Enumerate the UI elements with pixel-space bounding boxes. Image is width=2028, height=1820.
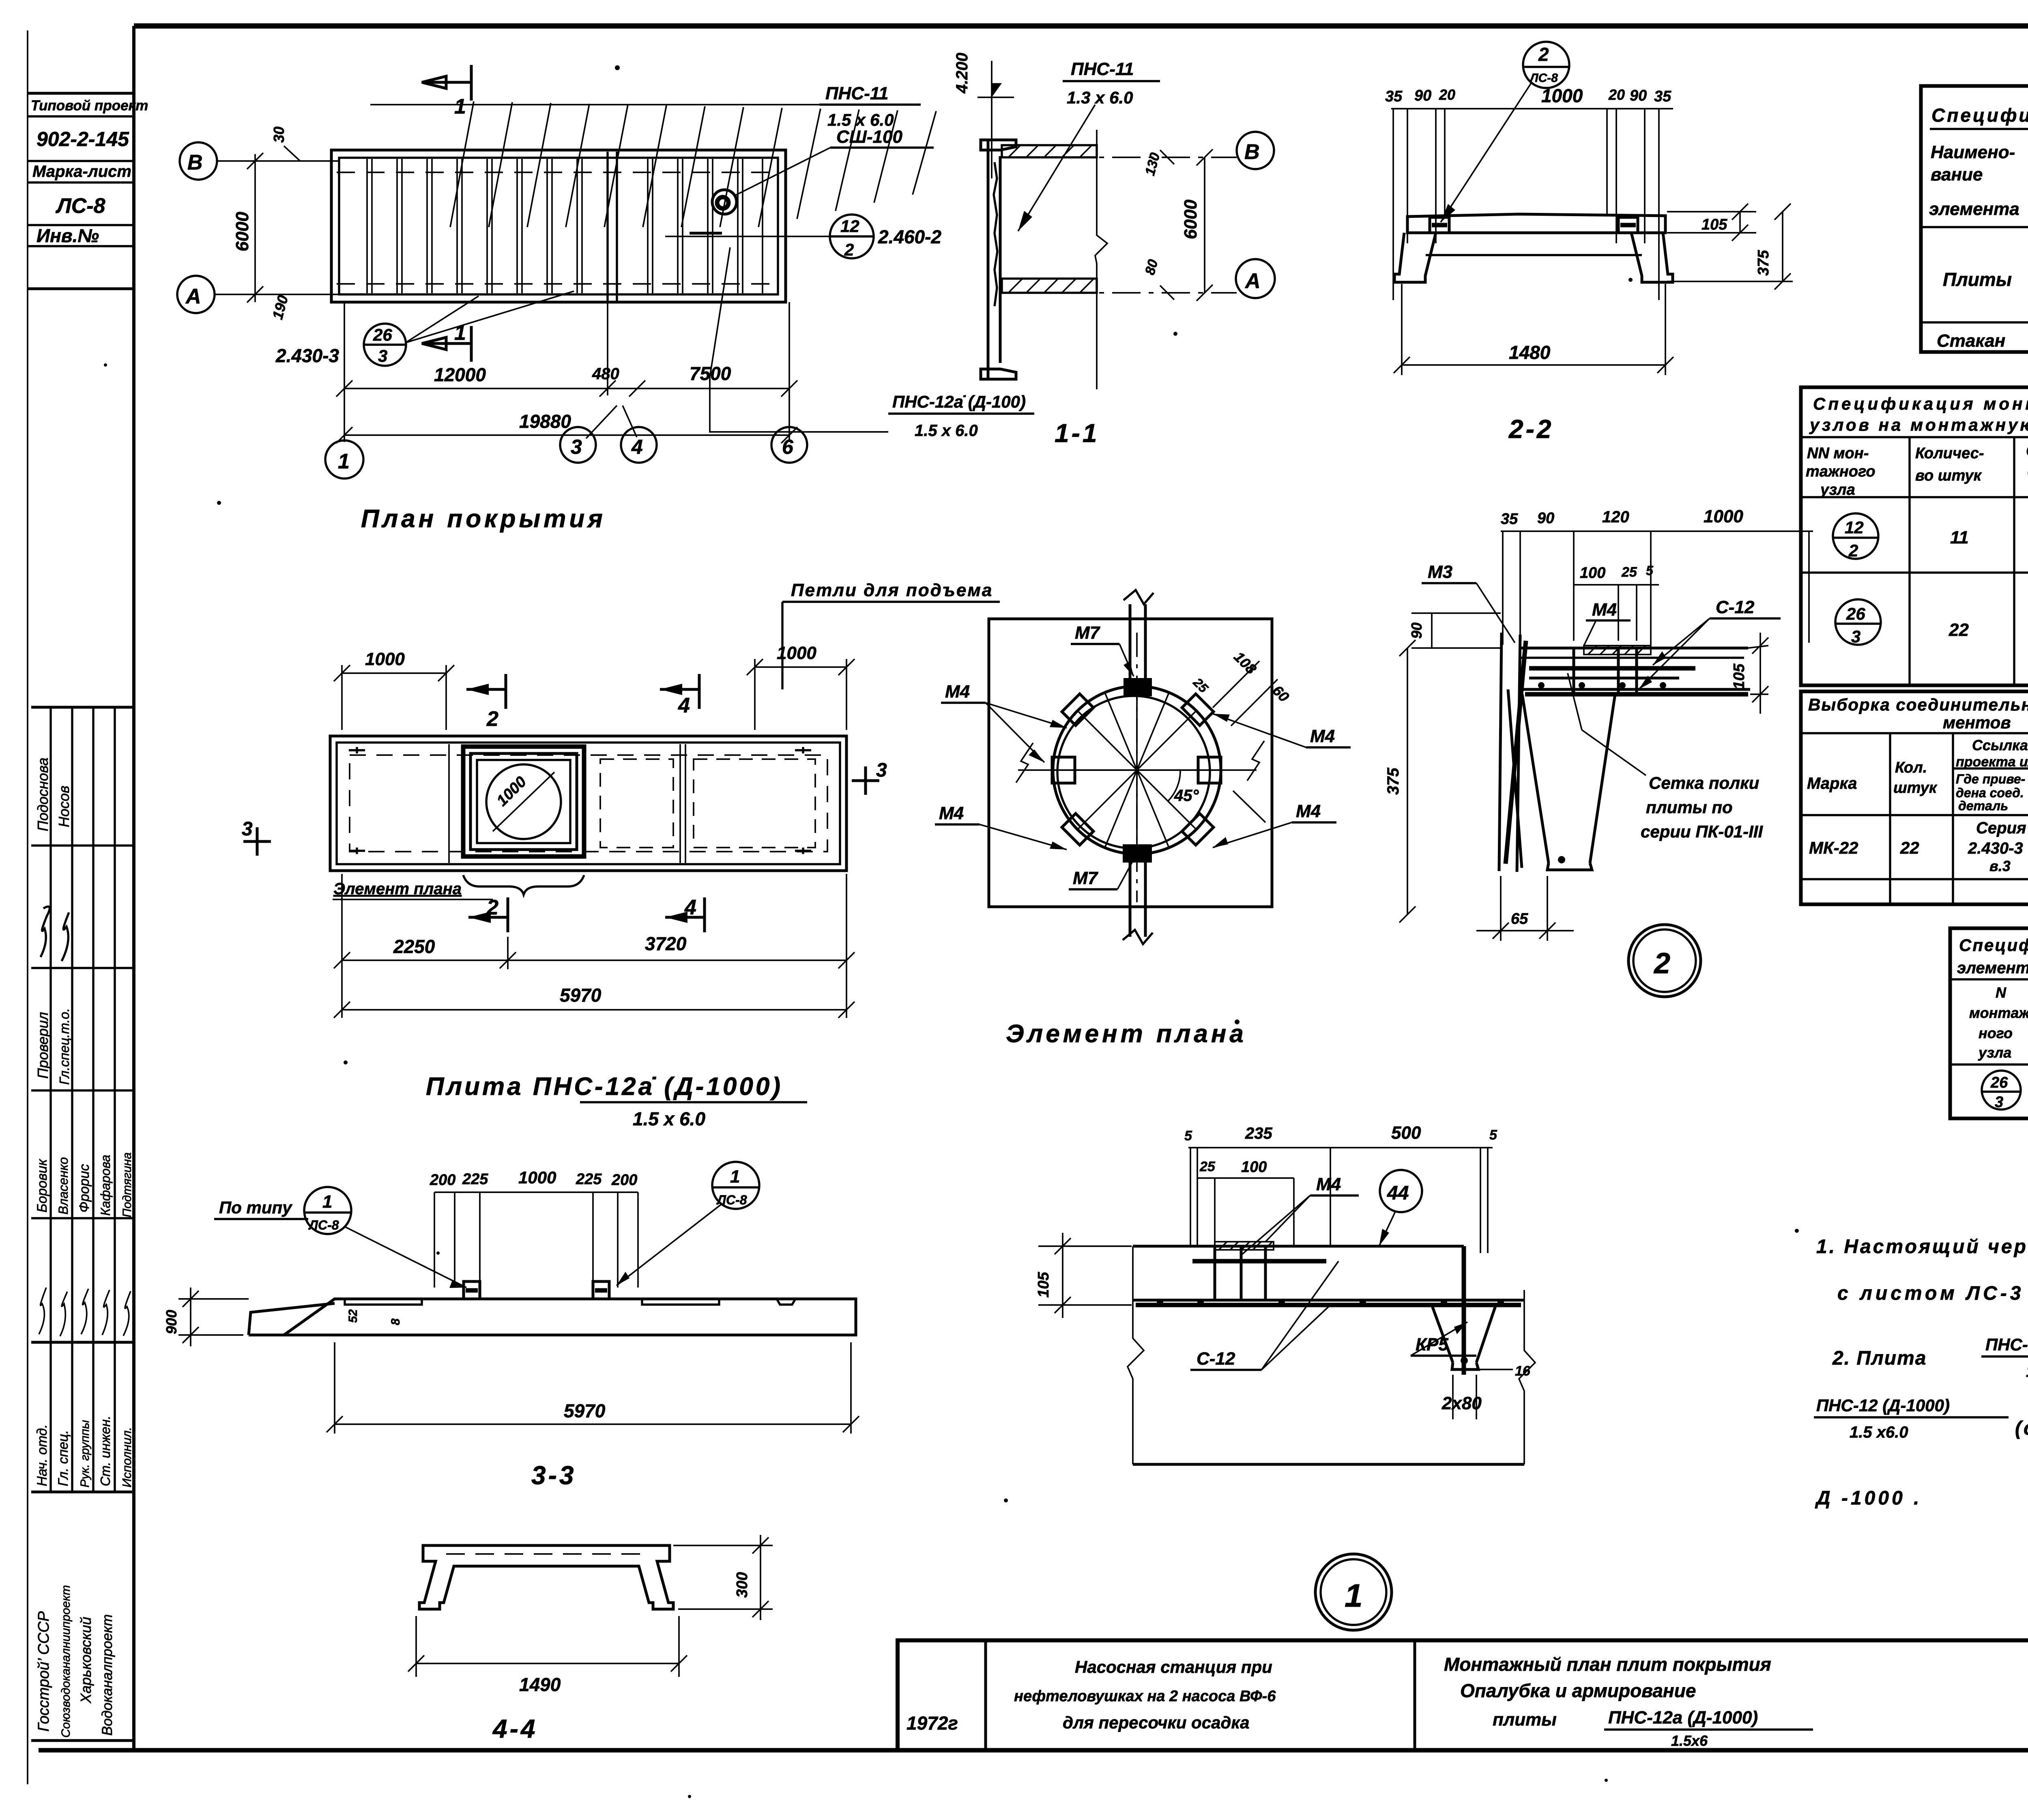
svg-text:4: 4: [684, 896, 696, 919]
svg-text:1000: 1000: [518, 1168, 556, 1187]
grid circle А: [177, 276, 215, 313]
M4 plate NW: [1062, 694, 1093, 725]
plan rib lines left block: [367, 159, 582, 293]
стакан СШ-100 symbol: [712, 190, 737, 214]
dim 105 right: [1667, 211, 1756, 212]
КРЗ vertical rod: [1462, 1246, 1466, 1375]
svg-text:6000: 6000: [1181, 200, 1201, 239]
node circle 12/2: [830, 215, 874, 258]
grid circle 6: [771, 427, 807, 463]
dim 375 right: [1667, 281, 1793, 282]
svg-text:В: В: [187, 151, 203, 174]
svg-text:2.460-2: 2.460-2: [878, 226, 941, 247]
svg-text:26: 26: [1846, 604, 1865, 623]
svg-text:По типу: По типу: [219, 1198, 293, 1217]
svg-text:штук: штук: [1893, 779, 1938, 796]
left break line: [1128, 1246, 1144, 1464]
svg-text:6: 6: [782, 436, 794, 458]
svg-text:Сетка полки: Сетка полки: [1649, 773, 1759, 792]
section 2-2 plate slab: [1407, 214, 1665, 233]
svg-text:ЛС-8: ЛС-8: [55, 194, 105, 218]
svg-text:с листом ЛС-3 .: с листом ЛС-3 .: [1837, 1283, 2028, 1304]
grid circle 3: [560, 427, 596, 463]
wall rebar diagonals: [1506, 641, 1526, 864]
svg-text:4: 4: [631, 436, 643, 458]
M4 plate NE: [1182, 694, 1214, 725]
svg-text:дена соед.: дена соед.: [1956, 786, 2024, 800]
dashed sub rect right1: [600, 759, 673, 848]
rebar top uzel1: [1192, 1259, 1326, 1264]
dim 1000 top-right: [754, 659, 756, 730]
svg-text:ПНС-11: ПНС-11: [825, 84, 889, 103]
svg-text:С-12: С-12: [1716, 597, 1755, 617]
svg-text:22: 22: [1949, 620, 1969, 640]
section 1-1 left wall: [987, 140, 990, 379]
svg-text:3-3: 3-3: [531, 1461, 576, 1490]
svg-text:Монтажный план плит покрытия: Монтажный план плит покрытия: [1444, 1654, 1771, 1675]
svg-text:3720: 3720: [645, 933, 687, 954]
leader line from 12/2 to plan: [665, 236, 830, 237]
svg-text:М4: М4: [945, 682, 970, 702]
svg-text:серии ПК-01-III: серии ПК-01-III: [1641, 822, 1763, 841]
svg-text:16: 16: [1515, 1363, 1531, 1379]
svg-text:100: 100: [1241, 1159, 1267, 1176]
stirrup verticals: [1573, 648, 1575, 694]
section 1-1 bottom slab hatched: [1002, 279, 1097, 293]
svg-text:2: 2: [1653, 947, 1670, 980]
svg-text:25: 25: [1621, 564, 1637, 580]
section mark 3 left: [243, 840, 271, 843]
svg-text:N: N: [1996, 984, 2007, 1001]
panel divider left: [448, 744, 450, 863]
rib right slope: [1590, 694, 1615, 863]
section 1-1 wall top cap: [981, 140, 1016, 150]
svg-text:7500: 7500: [690, 363, 731, 384]
main circle: [1053, 686, 1221, 854]
horizontal centerline extended: [1018, 769, 1257, 771]
connection node right: [1618, 217, 1638, 233]
svg-text:Опалубка и армирование: Опалубка и армирование: [1460, 1680, 1696, 1701]
plan покрытия inner outline: [339, 158, 778, 294]
axis line А: [215, 294, 339, 295]
svg-text:М7: М7: [1073, 868, 1099, 888]
svg-text:200: 200: [611, 1172, 637, 1189]
svg-text:1: 1: [1345, 1577, 1363, 1614]
slab bottom lines uzel1: [1133, 1299, 1524, 1302]
svg-text:М4: М4: [1310, 726, 1335, 746]
svg-text:проекта или тип.серии: проекта или тип.серии: [1956, 754, 2028, 770]
svg-text:Власенко: Власенко: [56, 1157, 71, 1215]
svg-text:Марка: Марка: [1807, 775, 1857, 792]
circle 1/ЛС-8 right: [712, 1162, 759, 1209]
svg-text:11: 11: [1950, 528, 1969, 547]
s33 center dim row: [434, 1191, 638, 1193]
svg-text:Где приве-: Где приве-: [1956, 772, 2025, 786]
svg-text:2: 2: [844, 240, 854, 259]
svg-text:26: 26: [1990, 1074, 2008, 1091]
dim 105 right uzel2: [1748, 646, 1768, 648]
svg-text:во штук: во штук: [1915, 467, 1982, 484]
svg-text:М4: М4: [1316, 1174, 1341, 1194]
plan покрытия outer outline: [331, 150, 786, 302]
svg-text:3: 3: [1851, 627, 1860, 646]
плита dashed contour: [350, 755, 827, 852]
svg-text:Стакан: Стакан: [1937, 331, 2005, 351]
svg-text:3: 3: [242, 818, 253, 840]
svg-text:С-12: С-12: [1197, 1349, 1235, 1369]
svg-text:А: А: [185, 285, 201, 308]
M7 top plate: [1124, 678, 1152, 696]
diagonal dim 108: [1213, 661, 1259, 708]
section mark 1 top: [422, 81, 471, 84]
dim 5970 s33: [334, 1342, 335, 1434]
svg-text:элементов на монтажный узел: элементов на монтажный узел: [1957, 959, 2028, 977]
svg-text:105: 105: [1731, 663, 1748, 689]
signatures scribbles: [41, 907, 49, 957]
T4 header: [1889, 733, 1891, 904]
radial spokes: [1053, 686, 1221, 854]
svg-text:плиты: плиты: [1493, 1710, 1557, 1730]
M4 plate SE: [1182, 813, 1214, 845]
svg-text:Рук. группы: Рук. группы: [78, 1420, 92, 1487]
svg-text:плиты по: плиты по: [1646, 798, 1733, 817]
grid circle 4: [621, 427, 657, 463]
leader to plate: [710, 247, 888, 432]
svg-text:35: 35: [1385, 88, 1403, 105]
svg-text:Исполнил.: Исполнил.: [120, 1427, 134, 1487]
svg-text:19880: 19880: [519, 411, 571, 432]
svg-text:Стандарт: Стандарт: [2026, 442, 2028, 460]
second dim row 100 25 5: [1574, 584, 1659, 586]
svg-text:4-4: 4-4: [492, 1714, 538, 1743]
svg-text:Петли для подъема: Петли для подъема: [791, 580, 993, 600]
svg-text:Кол.: Кол.: [1895, 759, 1927, 776]
svg-text:5: 5: [1489, 1127, 1497, 1143]
main frame left border / sidebar right edge: [132, 26, 135, 1750]
svg-text:30: 30: [271, 127, 287, 143]
svg-text:200: 200: [430, 1172, 455, 1189]
svg-text:Кафарова: Кафарова: [98, 1155, 113, 1216]
section 2-2 right leg: [1631, 233, 1673, 282]
section 2-2 top dim row: [1391, 108, 1673, 109]
svg-text:5970: 5970: [560, 985, 602, 1006]
dim 1000 top-left: [341, 665, 343, 730]
dim 1490 s44: [415, 1616, 417, 1677]
svg-text:8: 8: [389, 1318, 402, 1325]
svg-text:узла: узла: [1820, 481, 1855, 498]
svg-text:ПНС-11: ПНС-11: [1071, 59, 1134, 79]
wall verticals: [1499, 633, 1502, 871]
svg-text:ментов: ментов: [1943, 713, 2011, 732]
leader node2 to plate: [1441, 83, 1531, 222]
svg-text:2.430-3: 2.430-3: [275, 345, 339, 366]
svg-text:100: 100: [1580, 564, 1605, 582]
svg-text:Носов: Носов: [56, 786, 72, 827]
node circle 1: [1315, 1554, 1392, 1630]
svg-text:2. Плита: 2. Плита: [1832, 1348, 1927, 1369]
section 1-1 break line: [1095, 130, 1107, 389]
bottom dim line 12000/480/7500: [344, 302, 345, 442]
svg-text:2250: 2250: [393, 936, 435, 957]
section mark 2 top: [505, 674, 507, 709]
dim 300 right: [673, 1545, 773, 1546]
svg-text:90: 90: [1537, 510, 1554, 527]
svg-text:120: 120: [1602, 508, 1629, 526]
svg-text:480: 480: [592, 365, 619, 383]
svg-text:1.5 х 6.0: 1.5 х 6.0: [915, 422, 978, 440]
svg-text:вание: вание: [1931, 165, 1983, 185]
rib foot: [1547, 863, 1592, 870]
opening circle: [486, 764, 561, 839]
svg-text:12: 12: [1845, 518, 1864, 537]
svg-text:25: 25: [1199, 1159, 1216, 1174]
svg-text:В: В: [1244, 140, 1260, 164]
rib uzel1: [1432, 1305, 1453, 1363]
svg-text:Боровик: Боровик: [34, 1158, 50, 1213]
svg-text:1480: 1480: [1509, 342, 1551, 363]
svg-text:элемента: элемента: [1929, 199, 2019, 219]
svg-text:225: 225: [576, 1171, 602, 1188]
section mark 1 bottom: [422, 342, 471, 345]
svg-text:2: 2: [486, 707, 498, 731]
svg-text:375: 375: [1755, 250, 1772, 276]
svg-text:Спецификация монтажных: Спецификация монтажных: [1813, 394, 2028, 413]
svg-text:Ссылка на лист: Ссылка на лист: [1972, 737, 2028, 753]
svg-text:35: 35: [1654, 88, 1671, 105]
title block outer: [898, 1640, 2028, 1750]
элемент square: [989, 619, 1272, 907]
svg-text:1000: 1000: [365, 649, 405, 669]
svg-text:35: 35: [1501, 511, 1518, 528]
hatched pad: [1584, 646, 1651, 655]
dim 16: [1476, 1369, 1513, 1370]
svg-text:2: 2: [1538, 44, 1549, 65]
vertical dim line 6000: [254, 154, 256, 302]
svg-text:нефтеловушках на 2 насоса ВФ-6: нефтеловушках на 2 насоса ВФ-6: [1014, 1688, 1276, 1705]
slab top line uzel1: [1133, 1245, 1464, 1248]
svg-text:3: 3: [571, 436, 582, 458]
svg-text:1.5х6.0: 1.5х6.0: [2026, 1363, 2028, 1380]
svg-text:12: 12: [840, 217, 859, 236]
svg-text:М4: М4: [1296, 801, 1321, 821]
heavy opening frame: [463, 747, 584, 856]
axis line В: [217, 160, 339, 162]
плита plan inner rect: [337, 743, 840, 864]
circle 1/ЛС-8 left: [304, 1187, 351, 1234]
node circle 2/ЛС-8 over section 2-2: [1523, 42, 1569, 88]
svg-text:Подоснова: Подоснова: [34, 758, 51, 831]
dim 375 left: [1411, 647, 1501, 649]
section 1-1 top slab hatched: [1002, 145, 1097, 157]
uzel1 top dim line: [1188, 1147, 1493, 1148]
svg-text:Водоканалпроект: Водоканалпроект: [99, 1614, 115, 1736]
svg-text:ЛС-8: ЛС-8: [308, 1218, 339, 1232]
svg-text:(серия ПК-01-119) привязкой о: (серия ПК-01-119) привязкой отверстия: [2015, 1418, 2028, 1439]
T2 header: [1908, 437, 1910, 685]
grid circle В: [180, 142, 217, 180]
svg-text:105: 105: [1035, 1272, 1052, 1298]
axis dash line A: [1063, 292, 1237, 294]
svg-text:СШ-100: СШ-100: [836, 127, 902, 147]
dim 90 left: [1411, 612, 1501, 614]
svg-text:Типовой проект: Типовой проект: [31, 98, 148, 114]
svg-text:65: 65: [1511, 910, 1528, 927]
svg-text:Нач. отд.: Нач. отд.: [34, 1424, 50, 1486]
sidebar stamp box top: [28, 93, 148, 289]
T1 спецификация сборных жб элементов : outer: [1921, 86, 2028, 352]
svg-text:105: 105: [1701, 216, 1727, 233]
rib left slope: [1522, 694, 1549, 863]
M4 plate W: [1052, 757, 1075, 783]
svg-text:КР5: КР5: [1416, 1335, 1448, 1354]
svg-text:монтаж-: монтаж-: [1969, 1004, 2028, 1021]
plate top recesses: [345, 1299, 422, 1305]
svg-text:2.430-3: 2.430-3: [1968, 839, 2023, 857]
svg-text:902-2-145: 902-2-145: [37, 128, 129, 150]
svg-text:Наимено-: Наимено-: [1931, 142, 2015, 162]
svg-text:500: 500: [1391, 1123, 1421, 1143]
plan dashed axis lines: [337, 172, 779, 173]
svg-text:М3: М3: [1428, 562, 1452, 582]
left small dim 900: [178, 1298, 249, 1300]
svg-text:Плиты: Плиты: [1943, 269, 2012, 290]
svg-text:4.200: 4.200: [953, 53, 971, 94]
svg-text:1: 1: [322, 1192, 332, 1212]
svg-text:Союзводоканалниипроект: Союзводоканалниипроект: [59, 1585, 73, 1738]
T2 спецификация монтажных узлов: outer: [1801, 387, 2028, 685]
svg-text:А: А: [1244, 269, 1261, 293]
svg-text:ПНС-12а (Д-1000): ПНС-12а (Д-1000): [1608, 1708, 1758, 1728]
svg-text:Гл.спец.т.о.: Гл.спец.т.о.: [57, 1008, 72, 1085]
плита plan outer rect: [330, 736, 846, 871]
svg-text:1-1: 1-1: [1055, 419, 1100, 448]
svg-text:1.3 х 6.0: 1.3 х 6.0: [1067, 88, 1133, 107]
slab top line: [1520, 647, 1748, 650]
svg-text:NN мон-: NN мон-: [1807, 445, 1869, 462]
svg-text:900: 900: [163, 1310, 180, 1334]
svg-text:2-2: 2-2: [1508, 414, 1554, 444]
svg-text:3: 3: [876, 760, 887, 781]
M4 plate SW: [1062, 813, 1093, 845]
dim 1480 bottom: [1401, 284, 1403, 375]
section 1-1 wall bottom cap: [981, 369, 1016, 379]
svg-text:Элемент плана: Элемент плана: [333, 880, 462, 898]
svg-text:3: 3: [1995, 1094, 2003, 1111]
svg-text:ЛС-8: ЛС-8: [1529, 71, 1558, 85]
section mark 4 top: [698, 674, 701, 709]
svg-text:М4: М4: [1592, 600, 1617, 620]
svg-text:тажного: тажного: [1806, 463, 1875, 480]
svg-text:2: 2: [1848, 541, 1858, 560]
dim 105 left uzel1: [1038, 1245, 1132, 1247]
2x80 scribble: [1452, 1375, 1454, 1419]
svg-text:375: 375: [1384, 768, 1402, 795]
svg-text:Харьковский: Харьковский: [77, 1617, 94, 1704]
svg-text:Плита ПНС-12а̇ (Д-1000): Плита ПНС-12а̇ (Д-1000): [426, 1073, 783, 1101]
svg-text:ПНС-12 (Д-1000): ПНС-12 (Д-1000): [1816, 1396, 1950, 1415]
lifting loop marks: [349, 747, 811, 854]
svg-text:6000: 6000: [232, 212, 252, 251]
svg-text:2х80: 2х80: [1442, 1393, 1482, 1413]
connection node left: [1430, 217, 1449, 233]
svg-text:в.3: в.3: [1989, 858, 2011, 874]
svg-text:ного: ного: [1979, 1025, 2013, 1041]
dashed inner line: [446, 1553, 649, 1555]
upstand ribs with connection: [464, 1281, 609, 1299]
inner circle: [1057, 696, 1210, 848]
second dims 25 100: [1197, 1177, 1294, 1179]
right break line: [1519, 1290, 1535, 1464]
svg-text:1.5 х 6.0: 1.5 х 6.0: [827, 110, 894, 129]
svg-text:ПНС-12а̇ (Д-1000): ПНС-12а̇ (Д-1000): [1985, 1335, 2028, 1354]
svg-text:Фрорис: Фрорис: [77, 1164, 92, 1213]
diameter line: [493, 772, 554, 831]
svg-text:4: 4: [678, 694, 690, 717]
svg-text:деталь: деталь: [1958, 798, 2008, 813]
hatched pad uzel1: [1215, 1242, 1274, 1250]
svg-text:3: 3: [378, 346, 387, 365]
svg-text:26: 26: [373, 325, 392, 344]
svg-text:44: 44: [1387, 1183, 1409, 1204]
svg-text:22: 22: [1900, 838, 1919, 857]
svg-text:1: 1: [454, 95, 466, 118]
svg-text:5: 5: [1646, 563, 1654, 578]
svg-text:Госстрой’ СССР: Госстрой’ СССР: [35, 1611, 52, 1732]
svg-text:90: 90: [1414, 87, 1431, 104]
svg-text:План покрытия: План покрытия: [361, 505, 606, 533]
vertical centerline dashed: [1136, 633, 1138, 902]
T2 row2: [1835, 599, 1881, 645]
svg-text:90: 90: [1408, 622, 1425, 639]
leader line ПНС-11: [370, 104, 852, 105]
sheet left trim line: [27, 30, 28, 1784]
svg-text:Ст. инжен.: Ст. инжен.: [98, 1416, 113, 1486]
dashed sub rect right2: [694, 759, 815, 848]
svg-text:Количес-: Количес-: [1915, 445, 1984, 462]
svg-text:Подтягина: Подтягина: [120, 1153, 134, 1217]
svg-text:Проверил: Проверил: [34, 1012, 51, 1079]
svg-text:Спецификация соединительные: Спецификация соединительные: [1959, 936, 2028, 955]
svg-text:12000: 12000: [434, 364, 486, 385]
plan rib lines right block: [648, 159, 763, 293]
svg-text:ПНС-12а̇ (Д-100): ПНС-12а̇ (Д-100): [892, 392, 1026, 411]
dim 5970: [846, 874, 847, 1018]
T4 выборка соединительных элементов: outer: [1801, 691, 2028, 904]
main frame top border: [134, 24, 2028, 29]
node circle 26/3: [364, 324, 406, 366]
svg-text:90: 90: [1630, 87, 1647, 104]
uzel2 top dim line: [1501, 530, 1813, 532]
svg-text:1000: 1000: [1541, 85, 1583, 106]
vertical dim 6000 section: [1204, 157, 1205, 293]
dim 65 bottom uzel2: [1500, 876, 1502, 941]
section mark 4 bottom: [703, 897, 706, 932]
M4 plate E: [1198, 757, 1221, 783]
svg-text:52: 52: [346, 1309, 360, 1323]
M7 bottom plate: [1123, 844, 1152, 863]
svg-text:1: 1: [730, 1167, 740, 1187]
T6 спецификация соединительных элементов на узел: outer: [1950, 928, 2028, 1118]
roof hatch lines: [450, 101, 936, 227]
T6 data: [1982, 1071, 2021, 1110]
title block verticals: [984, 1640, 987, 1750]
section 2-2 back edge: [1426, 254, 1642, 256]
svg-text:225: 225: [462, 1171, 488, 1188]
section mark 2 bottom: [507, 897, 509, 932]
sidebar signature table: [31, 707, 134, 1741]
svg-text:5: 5: [1184, 1128, 1192, 1144]
svg-text:Спецификация сборных железобет: Спецификация сборных железобетонных эл-т…: [1931, 105, 2028, 126]
